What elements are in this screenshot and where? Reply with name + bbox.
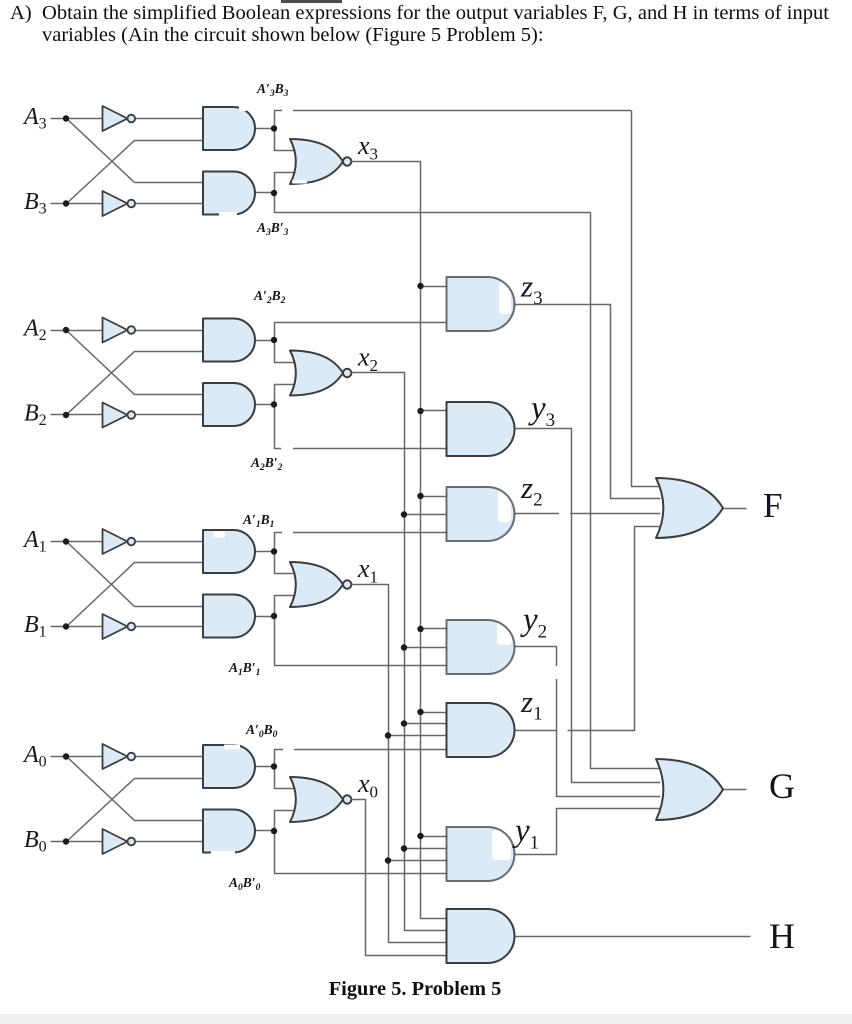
AND gate A&#39;2B2 xyxy=(203,319,255,362)
junction y2 input xyxy=(401,644,407,650)
wire A0 diagonal to lower AND input xyxy=(67,757,207,821)
wire stub into z2 xyxy=(421,496,451,498)
wire F output xyxy=(723,508,747,510)
junction B3 xyxy=(63,200,69,206)
svg-text:variables (Ain the circuit sho: variables (Ain the circuit shown below (… xyxy=(42,24,544,46)
junction y1 input xyxy=(401,845,407,851)
junction B0 xyxy=(63,838,69,844)
white gap on z1 output xyxy=(558,727,568,734)
junction y1 input xyxy=(385,857,391,863)
AND gate z2 xyxy=(447,487,515,541)
inverter A0 xyxy=(103,744,128,769)
wire upper AND A&#39;3B3 output xyxy=(255,128,275,130)
wire B2 diagonal to upper AND input xyxy=(67,352,207,415)
wire node A&#39;0B0 feed xyxy=(275,750,447,767)
AND gate y1 xyxy=(447,827,515,881)
junction A1B&#39;1 xyxy=(271,613,277,619)
wire stub into z1 xyxy=(389,735,451,737)
NOR gate x1 xyxy=(290,562,343,607)
bottom gray strip xyxy=(0,1014,852,1024)
wire input A3 to inverter and AND xyxy=(51,118,207,120)
inverter B1 xyxy=(103,614,128,639)
AND gate A2B&#39;2 xyxy=(203,383,255,426)
wire A3B'3 down to G input xyxy=(591,213,661,769)
junction A0 xyxy=(63,753,69,759)
junction A3 xyxy=(63,115,69,121)
wire input B3 to inverter and AND xyxy=(51,203,207,205)
AND gate A&#39;0B0 xyxy=(203,745,255,788)
wire A&#39;2B2 to NOR input xyxy=(275,341,299,363)
wire stub into y1 xyxy=(405,848,451,850)
white artifact on AND A&#39;0B0 xyxy=(224,745,240,750)
inverter B0 xyxy=(103,829,128,854)
inverter A1 xyxy=(103,529,128,554)
wire stub into y2 xyxy=(405,647,451,649)
wire B0 diagonal to upper AND input xyxy=(67,779,207,842)
wire node A1B&#39;1 feed xyxy=(275,617,447,666)
wire stub into y1 xyxy=(421,836,451,838)
AND gate A&#39;3B3 xyxy=(203,107,255,150)
wire A1 diagonal to lower AND input xyxy=(67,542,207,607)
AND gate y2 xyxy=(447,620,515,674)
junction A&#39;2B2 xyxy=(271,337,277,343)
svg-text:A)Obtain the simplified Boolea: A)Obtain the simplified Boolean expressi… xyxy=(10,2,829,24)
junction z1 input xyxy=(417,709,423,715)
junction B2 xyxy=(63,412,69,418)
wire stub into z3 xyxy=(421,286,451,288)
wire A1B&#39;1 to NOR input xyxy=(275,596,299,617)
AND gate z1 xyxy=(447,703,515,757)
AND gate A&#39;1B1 xyxy=(203,530,255,573)
wire node A2B&#39;2 feed xyxy=(275,405,447,449)
cut-off text fragment top edge xyxy=(281,0,342,3)
AND gate H xyxy=(447,909,515,963)
wire y1 output to G xyxy=(515,809,661,855)
wire node A3B&#39;3 feed xyxy=(275,193,591,213)
junction A&#39;1B1 xyxy=(271,548,277,554)
wire stub into z1 xyxy=(421,712,451,714)
junction A&#39;0B0 xyxy=(271,763,277,769)
AND gate A0B&#39;0 xyxy=(203,810,255,853)
wire node A&#39;2B2 feed xyxy=(275,323,447,341)
NOR gate x2 xyxy=(290,351,343,396)
wire A0B&#39;0 to NOR input xyxy=(275,811,299,831)
wire node A&#39;3B3 feed xyxy=(275,111,632,129)
wire z3 output to F xyxy=(515,305,661,499)
wire z2 output to F xyxy=(515,513,661,515)
wire node A&#39;1B1 feed xyxy=(275,533,447,552)
wire input A0 to inverter and AND xyxy=(51,756,207,758)
wire B3 diagonal to upper AND input xyxy=(67,141,207,204)
junction A&#39;3B3 xyxy=(271,125,277,131)
wire y3 output to G xyxy=(515,429,661,783)
svg-text:G: G xyxy=(769,766,795,806)
white gap on A&#39;3B3 feed xyxy=(282,108,293,115)
OR gate F xyxy=(656,478,723,538)
inverter B2 xyxy=(103,403,128,428)
AND gate A3B&#39;3 xyxy=(203,172,255,215)
AND gate z3 xyxy=(447,277,515,331)
wire A3 diagonal to lower AND input xyxy=(67,119,207,183)
wire G output xyxy=(723,789,747,791)
white artifact on AND A3B&#39;3 xyxy=(219,212,237,217)
junction z1 input xyxy=(385,732,391,738)
junction A0B&#39;0 xyxy=(271,828,277,834)
white gap on A&#39;0B0 feed xyxy=(283,746,294,753)
OR gate G xyxy=(656,759,723,820)
white gap on A2B&#39;2 feed xyxy=(281,445,293,452)
wire net x0 xyxy=(352,800,447,956)
white artifact on AND A&#39;1B1 xyxy=(213,532,225,538)
junction y1 input xyxy=(417,833,423,839)
wire stub into z1 xyxy=(405,723,451,725)
junction A2 xyxy=(63,327,69,333)
NOR gate x3 xyxy=(290,139,343,184)
junction z2 input xyxy=(401,511,407,517)
wire net x3 xyxy=(352,162,447,919)
junction z3 input xyxy=(417,283,423,289)
junction B1 xyxy=(63,623,69,629)
svg-text:F: F xyxy=(763,486,782,525)
junction y2 input xyxy=(417,626,423,632)
svg-text:H: H xyxy=(769,916,795,956)
wire upper AND A&#39;0B0 output xyxy=(255,766,275,768)
wire B1 diagonal to upper AND input xyxy=(67,563,207,627)
wire A&#39;3B3 to NOR input xyxy=(275,129,299,151)
junction A3B&#39;3 xyxy=(271,190,277,196)
AND gate A1B&#39;1 xyxy=(203,595,255,638)
junction z1 input xyxy=(401,720,407,726)
wire net x1 xyxy=(352,585,447,943)
wire input A1 to inverter and AND xyxy=(51,541,207,543)
NOR gate x0 xyxy=(290,777,343,822)
wire input B1 to inverter and AND xyxy=(51,626,207,628)
wire node A0B&#39;0 feed xyxy=(275,831,447,874)
white artifact on NOR x3 xyxy=(292,180,307,184)
inverter A3 xyxy=(103,106,128,131)
wire lower AND A2B&#39;2 output xyxy=(255,404,275,406)
white artifact on AND A0B&#39;0 xyxy=(211,851,235,856)
wire A&#39;0B0 to NOR input xyxy=(275,767,299,789)
junction A1 xyxy=(63,538,69,544)
wire A2 diagonal to lower AND input xyxy=(67,331,207,395)
wire input A2 to inverter and AND xyxy=(51,330,207,332)
wire H output xyxy=(515,936,751,938)
wire y2 output to G xyxy=(515,647,661,797)
wire A3B&#39;3 to NOR input xyxy=(275,173,299,193)
wire lower AND A3B&#39;3 output xyxy=(255,192,275,194)
wire lower AND A1B&#39;1 output xyxy=(255,616,275,618)
AND gate y3 xyxy=(447,402,515,456)
wire A&#39;1B1 to NOR input xyxy=(275,552,299,574)
white gap on y2 leg xyxy=(552,666,561,679)
junction y3 input xyxy=(417,408,423,414)
white gap on A&#39;1B1 feed xyxy=(282,530,293,537)
wire net x2 xyxy=(352,373,447,931)
wire A'3B3 down to F input xyxy=(632,111,661,487)
wire input B2 to inverter and AND xyxy=(51,414,207,416)
white artifact on AND A&#39;3B3 xyxy=(239,106,247,111)
wire input B0 to inverter and AND xyxy=(51,841,207,843)
junction A2B&#39;2 xyxy=(271,401,277,407)
wire upper AND A&#39;2B2 output xyxy=(255,340,275,342)
svg-text:Figure 5. Problem 5: Figure 5. Problem 5 xyxy=(329,978,502,1000)
wire upper AND A&#39;1B1 output xyxy=(255,551,275,553)
inverter A2 xyxy=(103,318,128,343)
white gap on z2 output xyxy=(559,511,570,518)
wire stub into y2 xyxy=(421,628,451,630)
wire stub into y1 xyxy=(389,860,451,862)
wire lower AND A0B&#39;0 output xyxy=(255,830,275,832)
inverter B3 xyxy=(103,191,128,216)
wire stub into y3 xyxy=(421,410,451,412)
junction z2 input xyxy=(417,493,423,499)
wire z1 output to F xyxy=(515,527,661,731)
wire stub into z2 xyxy=(405,514,451,516)
wire A2B&#39;2 to NOR input xyxy=(275,385,299,405)
